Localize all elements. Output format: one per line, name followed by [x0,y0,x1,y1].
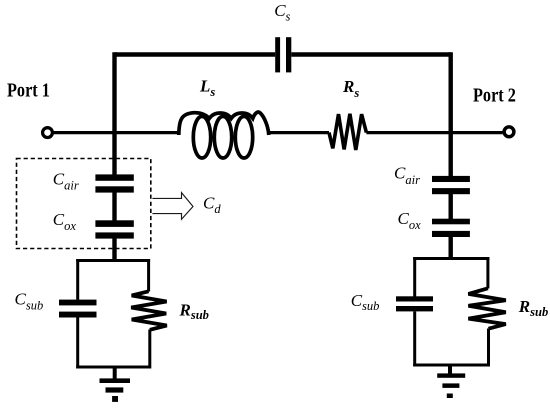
svg-text:Port 2: Port 2 [473,86,516,107]
svg-text:Port 1: Port 1 [7,81,50,102]
